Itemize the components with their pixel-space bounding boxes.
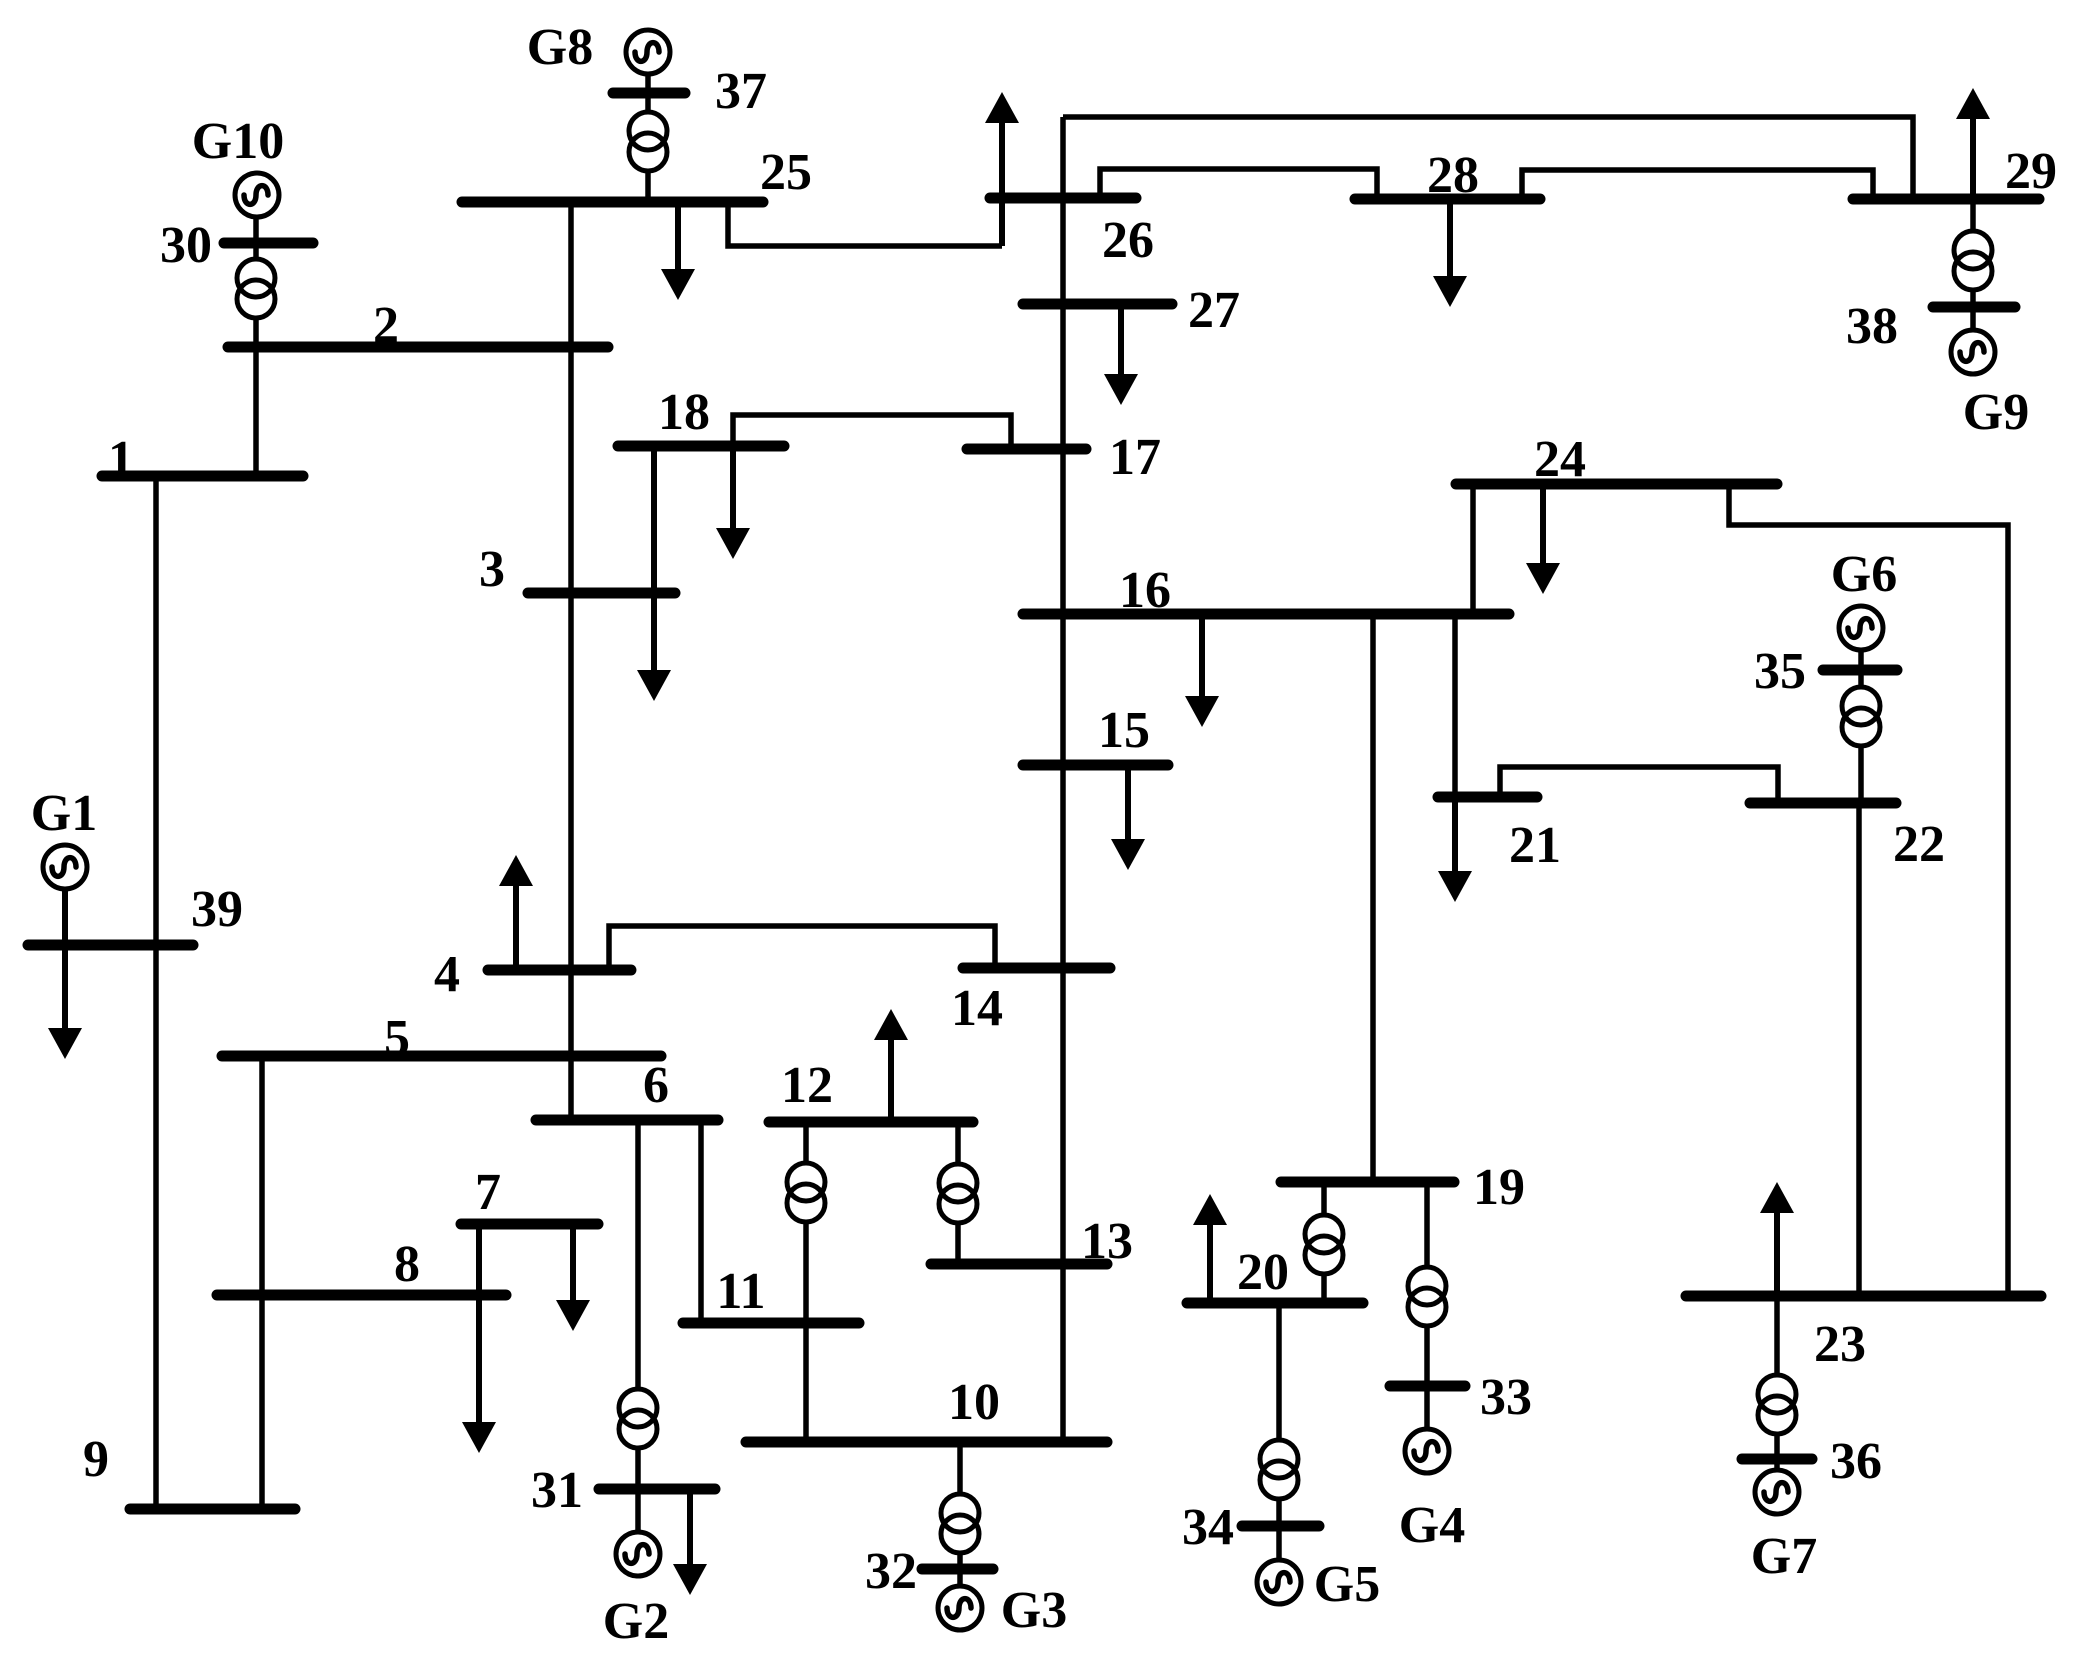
bus 34 (1242, 1521, 1319, 1532)
svg-text:G7: G7 (1751, 1528, 1817, 1585)
bus 16 (1023, 609, 1509, 620)
generator G9 (1951, 330, 1995, 374)
wire bus 19 to transformer 19-20 (1321, 1182, 1327, 1215)
load at bus 21 (1438, 797, 1472, 902)
bus 37 (613, 88, 685, 99)
bus 39 (28, 940, 193, 951)
wire G8 to bus 37 (645, 74, 651, 112)
load at bus 25 (661, 202, 695, 300)
svg-text:G8: G8 (527, 19, 593, 76)
load at bus 20 (up arrow) (1193, 1194, 1227, 1303)
wire bus 19 to transformer 19-33 (1424, 1182, 1430, 1267)
generator G2 (616, 1532, 660, 1576)
transformer 12-11 (787, 1163, 825, 1222)
generator G4 (1405, 1429, 1449, 1473)
load at bus 3 via line 18-3 (637, 446, 671, 701)
wire bus 10 to transformer 10-32 (957, 1442, 963, 1494)
bus 11 (683, 1318, 859, 1329)
load at bus 7 (556, 1224, 590, 1331)
wire transformer to bus 32 and G3 (957, 1553, 963, 1586)
load at bus 27 (1104, 304, 1138, 405)
bus 5 (222, 1051, 661, 1062)
svg-text:8: 8 (394, 1236, 420, 1293)
wire transformer to bus 36 and G7 (1774, 1434, 1780, 1470)
bus 20 (1187, 1298, 1363, 1309)
wire transformer to 11 and line 11-10 (803, 1222, 809, 1442)
svg-text:33: 33 (1480, 1369, 1532, 1426)
svg-text:25: 25 (760, 144, 812, 201)
bus 3 (528, 588, 675, 599)
bus 17 (967, 444, 1086, 455)
svg-text:38: 38 (1846, 298, 1898, 355)
svg-text:39: 39 (191, 881, 243, 938)
transformer 20-34 (1260, 1440, 1298, 1499)
wire line 1-39-9 (153, 476, 159, 1509)
wire chain 26-27-17-16-15-14-13-10 (1060, 117, 1066, 1442)
generator G6 (1839, 606, 1883, 650)
svg-text:26: 26 (1102, 212, 1154, 269)
generator G7 (1755, 1470, 1799, 1514)
bus 31 (599, 1484, 715, 1495)
wire line 25-26 (728, 202, 1002, 246)
bus 24 (1456, 479, 1777, 490)
svg-text:3: 3 (479, 541, 505, 598)
svg-text:7: 7 (475, 1164, 501, 1221)
wire transformer to bus 33 and G4 (1424, 1326, 1430, 1429)
load at bus 26 (up arrow) and line from 25 (985, 92, 1019, 246)
svg-text:27: 27 (1188, 282, 1240, 339)
wire line 26-28 (1100, 169, 1377, 199)
svg-text:1: 1 (108, 431, 134, 488)
wire bus 29 to transformer 29-38 (1970, 199, 1976, 231)
bus 10 (746, 1437, 1107, 1448)
generator G3 (938, 1586, 982, 1630)
bus 4 (488, 965, 631, 976)
svg-text:4: 4 (434, 946, 460, 1003)
svg-text:12: 12 (781, 1057, 833, 1114)
transformer 23-36 (1758, 1375, 1796, 1434)
svg-text:G3: G3 (1001, 1582, 1067, 1639)
svg-text:G1: G1 (31, 785, 97, 842)
wire bus 23 to transformer 23-36 (1774, 1296, 1780, 1375)
generator G8 (626, 30, 670, 74)
bus 2 (228, 342, 608, 353)
bus 6 (536, 1115, 718, 1126)
wire G10 to bus 30 (253, 217, 259, 259)
generator G10 (235, 173, 279, 217)
bus 38 (1933, 302, 2015, 313)
transformer 37-25 (629, 112, 667, 171)
generator G5 (1257, 1560, 1301, 1604)
wire bus 6 to transformer 6-31 (635, 1120, 641, 1389)
svg-text:G5: G5 (1314, 1556, 1380, 1613)
svg-text:9: 9 (83, 1431, 109, 1488)
svg-text:6: 6 (643, 1057, 669, 1114)
bus 35 (1823, 665, 1897, 676)
load at bus 18 (716, 446, 750, 559)
wire bus 12 to transformer (803, 1122, 809, 1163)
bus 15 (1023, 760, 1168, 771)
load at bus 28 (1433, 199, 1467, 307)
svg-text:24: 24 (1534, 431, 1586, 488)
svg-text:34: 34 (1182, 1499, 1234, 1556)
bus 23 (1686, 1291, 2041, 1302)
wire line 5-8-9 (259, 1056, 265, 1509)
svg-text:30: 30 (160, 217, 212, 274)
bus 25 (462, 197, 763, 208)
wire transformer to bus 38 and G9 (1970, 290, 1976, 330)
svg-text:11: 11 (716, 1263, 765, 1320)
svg-text:15: 15 (1098, 702, 1150, 759)
transformer 10-32 (941, 1494, 979, 1553)
bus 22 (1750, 798, 1896, 809)
bus 36 (1742, 1454, 1812, 1465)
bus 13 (931, 1259, 1107, 1270)
wire transformer to bus 2 and line 2-1 (253, 318, 259, 476)
bus 27 (1023, 299, 1172, 310)
svg-text:G6: G6 (1831, 546, 1897, 603)
transformer 19-20 (1305, 1215, 1343, 1274)
load at bus 29 (up arrow) (1956, 88, 1990, 199)
wire line 16-19 (1370, 614, 1376, 1182)
svg-text:36: 36 (1830, 1433, 1882, 1490)
transformer 35-22 (1842, 687, 1880, 746)
bus 33 (1390, 1381, 1465, 1392)
wire transformer to bus 20 (1321, 1274, 1327, 1303)
svg-text:2: 2 (373, 297, 399, 354)
svg-text:18: 18 (658, 384, 710, 441)
transformer 12-13 (939, 1164, 977, 1223)
transformer 29-38 (1954, 231, 1992, 290)
load at bus 12 (up arrow) (874, 1009, 908, 1122)
wire transformer to bus 31 and G2 (635, 1448, 641, 1532)
wire line 28-29 (1522, 170, 1873, 199)
load at bus 23 (up arrow) (1760, 1182, 1794, 1296)
svg-text:G2: G2 (603, 1593, 669, 1650)
wire transformer to bus 34 and G5 (1276, 1499, 1282, 1560)
wire line 21-22 (1500, 767, 1778, 803)
svg-text:13: 13 (1081, 1213, 1133, 1270)
svg-text:16: 16 (1119, 562, 1171, 619)
svg-text:10: 10 (948, 1374, 1000, 1431)
transformer 19-33 (1408, 1267, 1446, 1326)
load at bus 39 and G1 feed (48, 889, 82, 1059)
load at bus 8 via line 7-8 (462, 1224, 496, 1453)
wire chain 25-2-3-4-5-6 (568, 204, 574, 1120)
bus 26 (990, 193, 1136, 204)
svg-text:G10: G10 (192, 113, 284, 170)
svg-text:20: 20 (1237, 1244, 1289, 1301)
svg-text:14: 14 (951, 980, 1003, 1037)
bus 32 (922, 1564, 993, 1575)
svg-text:G4: G4 (1399, 1497, 1465, 1554)
bus 7 (461, 1219, 598, 1230)
wire line 23-24 (1729, 484, 2008, 1296)
svg-text:37: 37 (715, 63, 767, 120)
wire line 6-11 (698, 1120, 704, 1323)
wire transformer to bus 13 (955, 1223, 961, 1264)
svg-text:31: 31 (531, 1462, 583, 1519)
bus 8 (217, 1290, 506, 1301)
bus 28 (1355, 194, 1540, 205)
wire line 26-29 (1063, 117, 1913, 199)
svg-text:G9: G9 (1963, 384, 2029, 441)
bus 1 (102, 471, 303, 482)
wire transformer to bus 22 (1858, 746, 1864, 803)
wire bus 20 to transformer 20-34 (1276, 1303, 1282, 1440)
load at bus 16 (1185, 614, 1219, 727)
generator G1 (43, 845, 87, 889)
svg-text:22: 22 (1893, 816, 1945, 873)
svg-text:29: 29 (2005, 143, 2057, 200)
wire line 16-24 (1470, 484, 1476, 614)
load at bus 15 (1111, 765, 1145, 870)
load at bus 31 (673, 1489, 707, 1595)
svg-text:5: 5 (384, 1010, 410, 1067)
load at bus 4 (up arrow) (499, 855, 533, 970)
svg-text:21: 21 (1509, 817, 1561, 874)
bus 19 (1281, 1177, 1454, 1188)
svg-text:23: 23 (1814, 1316, 1866, 1373)
load at bus 24 (1526, 484, 1560, 594)
wire transformer to bus 25 (645, 171, 651, 202)
svg-text:35: 35 (1754, 643, 1806, 700)
svg-text:28: 28 (1427, 147, 1479, 204)
wire line 22-23 (1856, 803, 1862, 1296)
bus 30 (224, 238, 313, 249)
bus 18 (618, 441, 784, 452)
transformer 6-31 (619, 1389, 657, 1448)
svg-text:17: 17 (1109, 429, 1161, 486)
bus 21 (1438, 792, 1537, 803)
wire G6 to bus 35 (1858, 650, 1864, 687)
svg-text:32: 32 (865, 1543, 917, 1600)
bus 12 (769, 1117, 973, 1128)
wire bus 12 to transformer 12-13 (955, 1122, 961, 1164)
wire line 4-14 (609, 926, 995, 970)
wire line 16-21 (1452, 614, 1458, 797)
bus 9 (130, 1504, 295, 1515)
svg-text:19: 19 (1473, 1159, 1525, 1216)
bus 29 (1853, 194, 2039, 205)
wire line 18-17 (733, 415, 1011, 449)
bus 14 (963, 963, 1110, 974)
transformer 30-2 (237, 259, 275, 318)
